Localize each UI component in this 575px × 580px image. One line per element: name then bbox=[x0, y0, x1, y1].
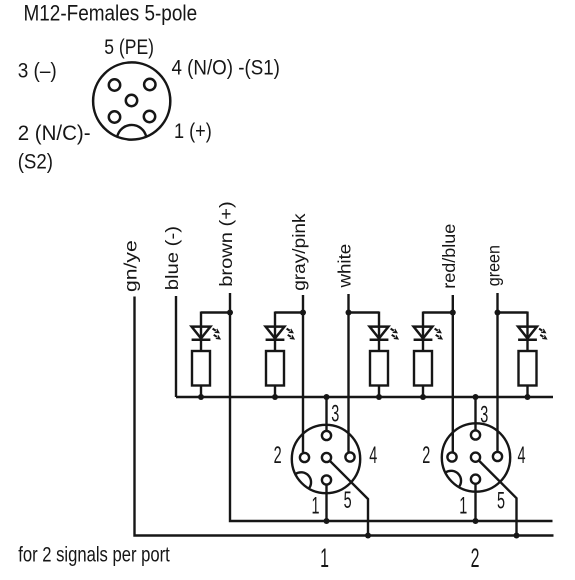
svg-text:for 2 signals per port: for 2 signals per port bbox=[18, 544, 170, 567]
label wire white bbox=[335, 244, 354, 289]
svg-text:2 (N/C)-: 2 (N/C)- bbox=[18, 121, 91, 145]
LED D1 bbox=[192, 327, 211, 340]
label pin 2 (N/C)- bbox=[18, 121, 91, 145]
wire port 1 pin 1 to plus bus bbox=[325, 485, 327, 521]
pin 4 of J0 bbox=[144, 79, 155, 90]
svg-text:1: 1 bbox=[320, 543, 329, 573]
junction port 1 pin 1 on plus bus bbox=[324, 518, 330, 524]
LED D3 branch top wire bbox=[349, 312, 380, 352]
LED D1 emission arrows bbox=[211, 326, 222, 341]
minus bus from blue wire along resistor bottoms bbox=[176, 396, 553, 398]
junction on wire at LED D2 branch bbox=[300, 310, 306, 316]
port 1 connector circle bbox=[292, 425, 360, 493]
port 1 pin 5 center bbox=[322, 453, 331, 462]
junction R5 on minus bus bbox=[525, 394, 531, 400]
svg-text:4: 4 bbox=[517, 442, 525, 469]
svg-text:M12-Females 5-pole: M12-Females 5-pole bbox=[24, 1, 198, 26]
port 2 keying notch bbox=[445, 471, 461, 487]
resistor R2 bbox=[266, 351, 284, 386]
port 1 pin 1 bbox=[322, 475, 331, 484]
caption for 2 signals per port bbox=[18, 544, 170, 567]
junction on wire at LED D4 branch bbox=[450, 310, 456, 316]
svg-text:5: 5 bbox=[344, 487, 352, 514]
label 1 at port 2 bbox=[459, 493, 467, 520]
label 5 at port 2 bbox=[497, 488, 505, 515]
LED D2 bbox=[266, 327, 285, 340]
junction R1 on minus bus bbox=[198, 394, 204, 400]
label port number 1 bbox=[320, 543, 329, 573]
pin 5 of J0 (center) bbox=[126, 95, 137, 106]
port 2 pin 4 bbox=[493, 452, 502, 461]
LED D1 branch top wire bbox=[201, 312, 230, 352]
wire gray/pink vertical to port 1 pin 2 bbox=[302, 295, 304, 452]
junction port 1 pin 5 on PE bus bbox=[365, 533, 371, 539]
svg-text:3: 3 bbox=[331, 401, 339, 428]
label 4 at port 1 bbox=[369, 443, 377, 470]
port 2 pin 1 bbox=[471, 475, 480, 484]
svg-text:3 (–): 3 (–) bbox=[18, 59, 57, 82]
junction port 2 pin 1 on plus bus bbox=[473, 518, 479, 524]
svg-text:2: 2 bbox=[471, 543, 480, 573]
port 2 pin 2 bbox=[447, 452, 456, 461]
pin 3 of J0 bbox=[109, 79, 120, 90]
wire R5 to minus bus bbox=[526, 386, 528, 398]
label (S2) bbox=[18, 150, 53, 173]
port 1 keying notch bbox=[295, 472, 311, 488]
wire white vertical to port 1 pin 4 bbox=[347, 294, 349, 452]
svg-text:1 (+): 1 (+) bbox=[174, 120, 212, 144]
label wire red/blue bbox=[439, 224, 459, 289]
LED D4 branch top wire bbox=[423, 312, 453, 352]
LED D3 bbox=[370, 327, 389, 340]
svg-text:red/blue: red/blue bbox=[439, 224, 459, 289]
LED D5 branch top wire bbox=[498, 312, 528, 352]
junction port 2 pin 3 on minus bus bbox=[473, 394, 479, 400]
svg-text:2: 2 bbox=[422, 442, 430, 469]
junction on wire at LED D3 branch bbox=[346, 310, 352, 316]
wire R1 to minus bus bbox=[200, 386, 202, 398]
wire R2 to minus bus bbox=[274, 386, 276, 398]
port 1 pin 2 bbox=[300, 453, 309, 462]
keying notch of J0 bbox=[117, 125, 146, 137]
svg-text:(S2): (S2) bbox=[18, 150, 53, 173]
junction port 2 pin 5 on PE bus bbox=[514, 533, 520, 539]
port 1 pin 4 bbox=[345, 452, 354, 461]
label 2 at port 1 bbox=[274, 442, 282, 469]
svg-text:blue (-): blue (-) bbox=[163, 226, 182, 290]
junction R3 on minus bus bbox=[376, 394, 382, 400]
wire green vertical to port 2 pin 4 bbox=[496, 293, 498, 452]
label 3 at port 1 bbox=[331, 401, 339, 428]
svg-text:4 (N/O) -(S1): 4 (N/O) -(S1) bbox=[172, 56, 280, 79]
port 2 pin 5 center bbox=[471, 453, 480, 462]
resistor R4 bbox=[414, 351, 432, 386]
svg-text:5: 5 bbox=[497, 488, 505, 515]
wire port 2 pin 1 to plus bus bbox=[474, 484, 476, 521]
label pin 5 (PE) bbox=[104, 35, 154, 59]
label wire green bbox=[484, 245, 504, 286]
svg-text:gray/pink: gray/pink bbox=[289, 213, 309, 291]
label port number 2 bbox=[471, 543, 480, 573]
svg-text:1: 1 bbox=[459, 493, 467, 520]
svg-text:4: 4 bbox=[369, 443, 377, 470]
wire port 1 pin 5 diagonal to PE bus bbox=[330, 461, 368, 536]
LED D5 bbox=[518, 327, 537, 340]
LED D2 branch top wire bbox=[275, 312, 303, 352]
wire gn/ye vertical and PE bus to ports pin 5 bbox=[135, 297, 554, 536]
wire R4 to minus bus bbox=[422, 386, 424, 398]
port 1 pin 3 bbox=[322, 431, 331, 440]
title label M12-Females 5-pole bbox=[24, 1, 198, 26]
label 4 at port 2 bbox=[517, 442, 525, 469]
svg-text:1: 1 bbox=[311, 493, 319, 520]
svg-text:green: green bbox=[484, 245, 504, 286]
svg-text:white: white bbox=[335, 244, 354, 289]
port 2 pin 3 bbox=[471, 430, 480, 439]
wire R3 to minus bus bbox=[378, 386, 380, 398]
pin 2 of J0 bbox=[109, 111, 120, 122]
label wire gray/pink bbox=[289, 213, 309, 291]
wire red/blue vertical to port 2 pin 2 bbox=[452, 295, 454, 452]
LED D4 bbox=[414, 327, 433, 340]
label 3 at port 2 bbox=[480, 402, 488, 429]
svg-text:brown (+): brown (+) bbox=[216, 201, 235, 287]
label pin 4 (N/O)-(S1) bbox=[172, 56, 280, 79]
LED D5 emission arrows bbox=[538, 326, 549, 341]
junction on wire at LED D5 branch bbox=[495, 310, 501, 316]
label wire blue (-) bbox=[163, 226, 182, 290]
resistor R1 bbox=[192, 351, 210, 386]
svg-text:2: 2 bbox=[274, 442, 282, 469]
label 2 at port 2 bbox=[422, 442, 430, 469]
label pin 3 (-) bbox=[18, 59, 57, 82]
resistor R3 bbox=[370, 351, 388, 386]
wire minus bus to port 2 pin 3 bbox=[474, 397, 476, 431]
pin 1 of J0 bbox=[144, 111, 155, 122]
wire blue (-) vertical bbox=[175, 296, 177, 397]
svg-text:gn/ye: gn/ye bbox=[121, 240, 141, 292]
M12 female connector face J0 bbox=[93, 62, 170, 139]
label 5 at port 1 bbox=[344, 487, 352, 514]
wire brown (+) vertical and plus bus to ports pin 1 bbox=[230, 293, 553, 521]
junction R4 on minus bus bbox=[420, 394, 426, 400]
junction R2 on minus bus bbox=[272, 394, 278, 400]
port 2 connector circle bbox=[442, 423, 510, 491]
junction on wire at LED D1 branch bbox=[227, 310, 233, 316]
label wire brown (+) bbox=[216, 201, 235, 287]
resistor R5 bbox=[519, 351, 537, 386]
label wire gn/ye bbox=[121, 240, 141, 292]
LED D2 emission arrows bbox=[285, 326, 296, 341]
label pin 1 (+) bbox=[174, 120, 212, 144]
wire minus bus to port 1 pin 3 bbox=[325, 397, 327, 431]
LED D4 emission arrows bbox=[433, 326, 444, 341]
junction port 1 pin 3 on minus bus bbox=[324, 394, 330, 400]
svg-text:5 (PE): 5 (PE) bbox=[104, 35, 154, 59]
LED D3 emission arrows bbox=[389, 326, 400, 341]
label 1 at port 1 bbox=[311, 493, 319, 520]
wire port 2 pin 5 diagonal to PE bus bbox=[479, 460, 517, 535]
